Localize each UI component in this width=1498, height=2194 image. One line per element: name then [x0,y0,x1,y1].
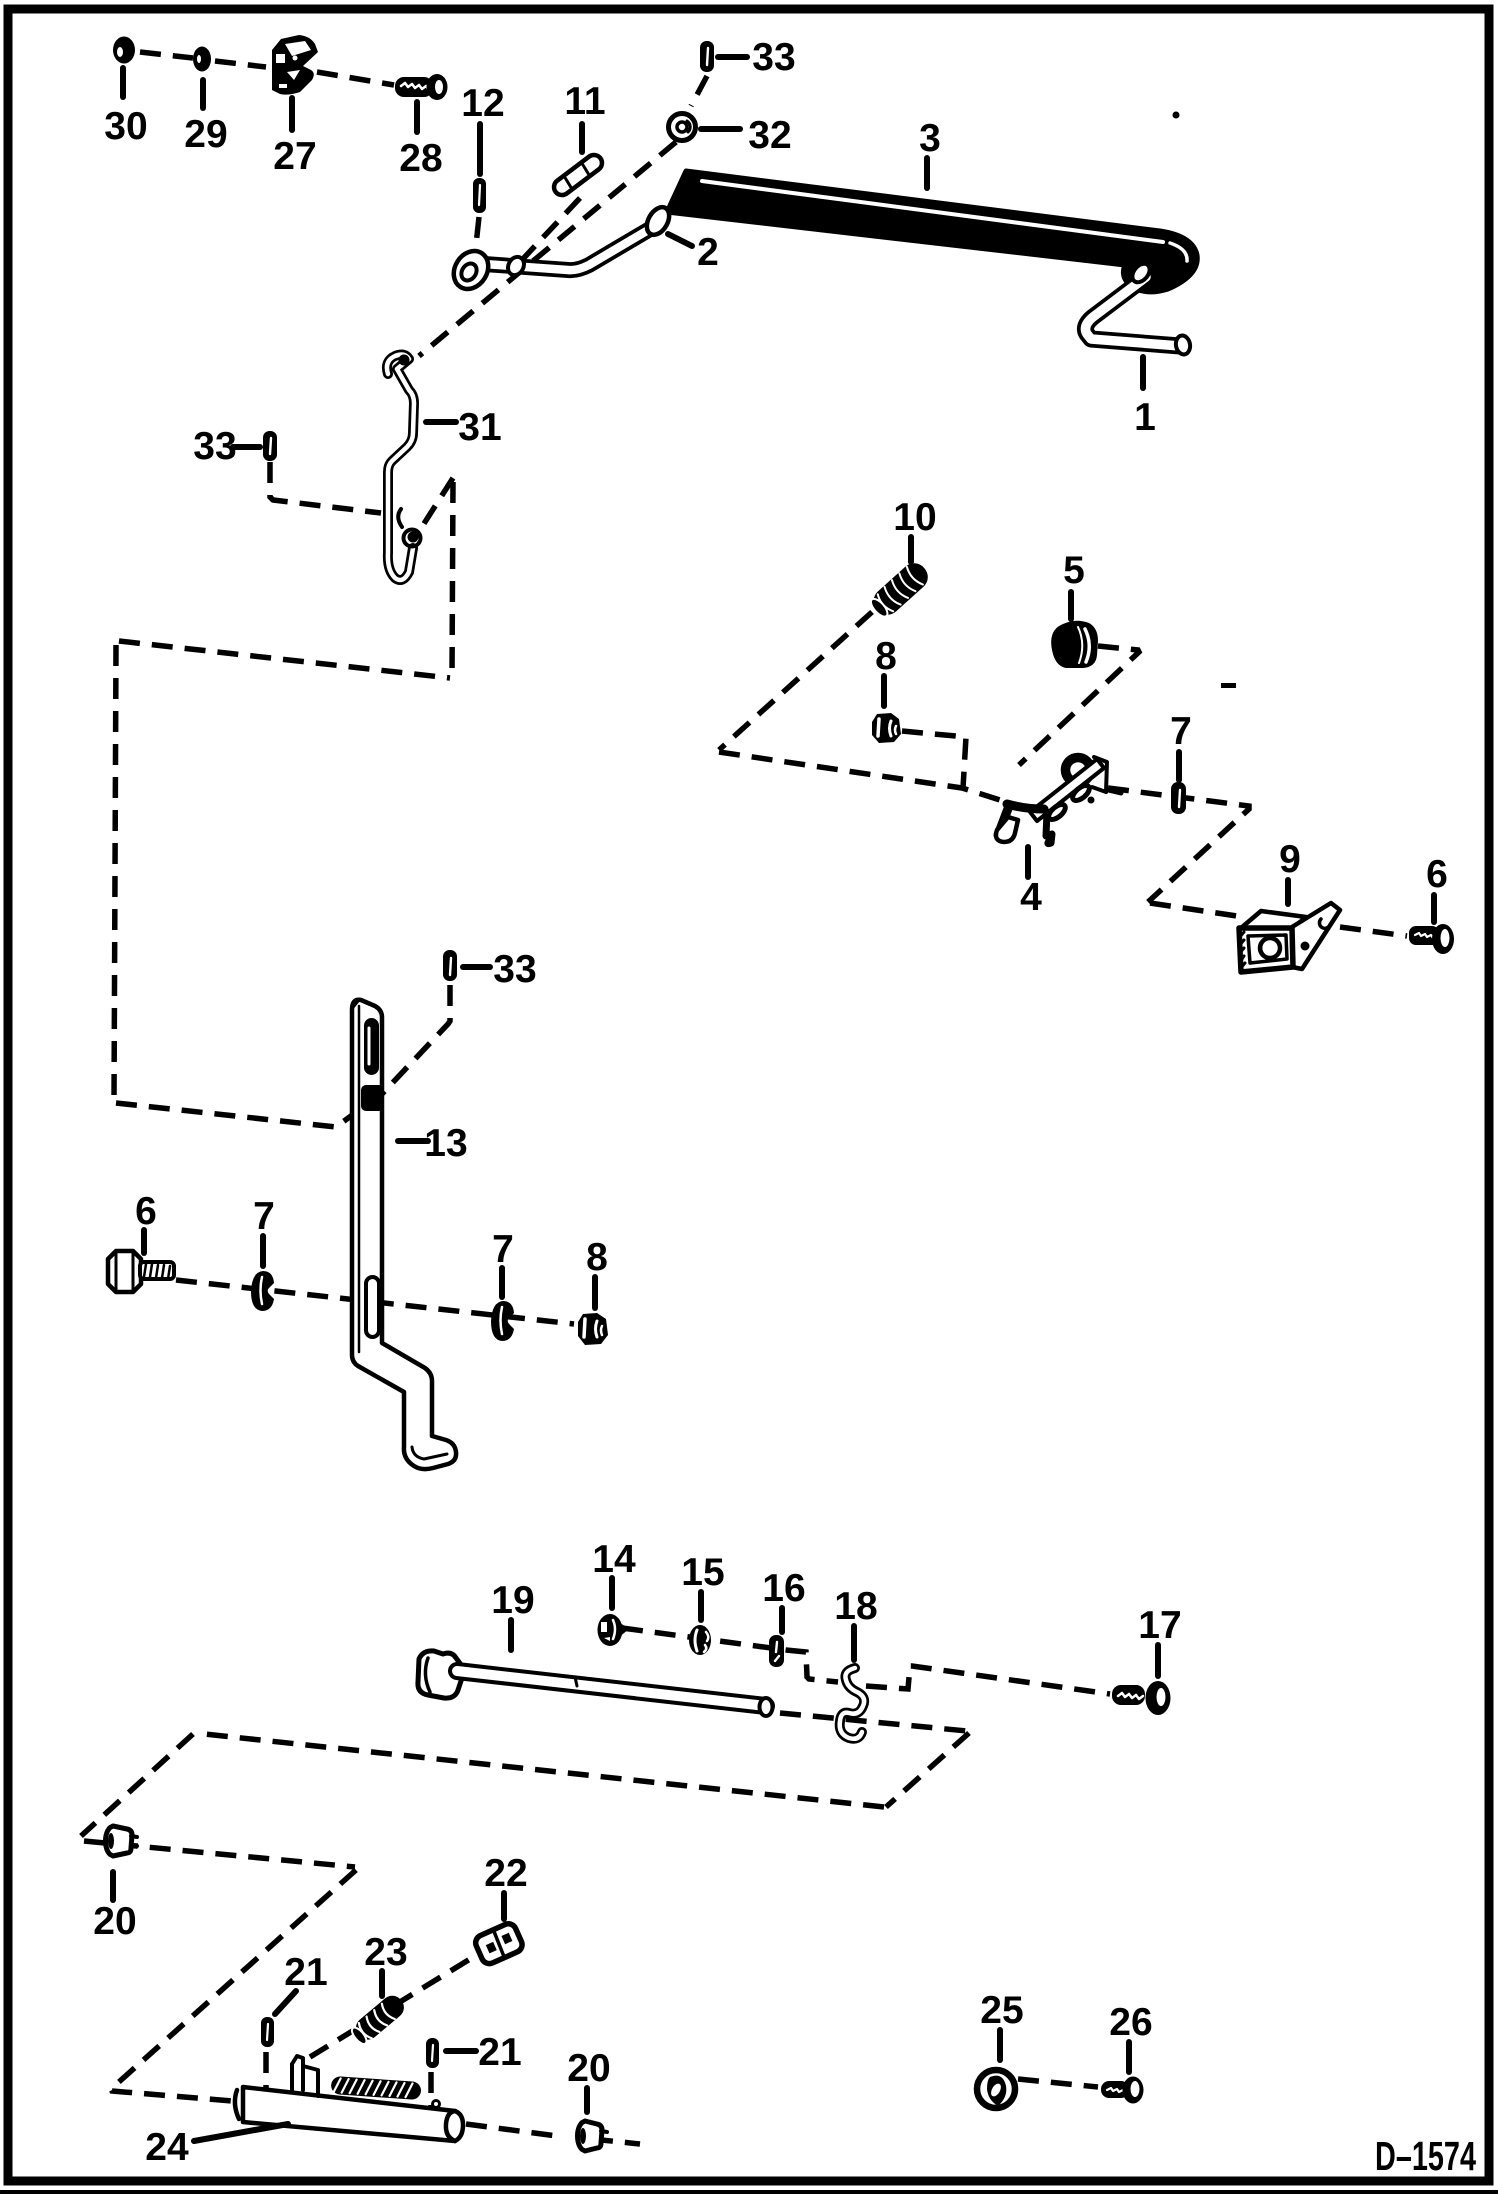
svg-text:15: 15 [681,1551,724,1594]
dashed line corner to bracket 9 [1150,903,1237,916]
part 24 pedal shaft assembly [235,2056,463,2141]
dashed line 18 to 17 step [866,1666,1110,1694]
part 15 clip [689,1625,711,1655]
leader 9 [1285,880,1291,904]
svg-text:33: 33 [493,948,536,991]
svg-text:14: 14 [592,1538,636,1581]
leader 31 [426,419,456,425]
leader 33 top right [718,54,747,60]
part 28 bolt [395,74,448,100]
part 3 handlebar grip [667,171,1197,292]
svg-text:24: 24 [145,2126,189,2169]
svg-text:5: 5 [1063,549,1085,592]
dashed line 25 to 26 [1018,2079,1098,2087]
dashed line knob 5 [1019,646,1139,765]
leader 25 [997,2030,1003,2060]
part 22 clip plate [473,1921,524,1966]
dashed line 33 to 32 [691,76,707,106]
svg-text:4: 4 [1020,876,1042,919]
leader 6 right [1431,895,1437,922]
svg-text:33: 33 [193,425,236,468]
leader 33 middle [463,964,490,970]
leader 7 upper [1176,752,1182,780]
leader 17 [1155,1645,1161,1676]
svg-text:D–1574: D–1574 [1375,2133,1476,2179]
svg-text:20: 20 [567,2047,610,2090]
leader 5 [1068,592,1074,619]
leader 29 [200,80,206,108]
dashed line left vertical panel [114,645,116,1101]
dashed line diagonal to 31 eye [418,478,453,533]
svg-text:2: 2 [697,231,719,274]
part 18 spring clip [840,1668,864,1739]
svg-text:30: 30 [104,105,147,148]
dashed line flange 9 to bolt 6 [1340,927,1407,936]
svg-text:25: 25 [980,1989,1023,2032]
dashed line after 20 mid [592,2139,640,2144]
dashed line panel right edge [886,1733,969,1807]
leader 8 right [592,1277,598,1308]
part 7 roll pin upper [1171,782,1186,814]
svg-text:33: 33 [752,36,795,79]
part 33 roll pin left [263,431,277,461]
dashed line 33 left to rod 31 [270,462,381,513]
part 1 crank handle [1085,260,1191,355]
dashed line through 20 left [84,1841,355,1867]
svg-text:27: 27 [273,135,316,178]
leader 14 [609,1578,615,1608]
dashed line 30 to 29 [140,52,193,58]
part 6 bolt right [1409,924,1454,954]
dashed line bolt 6 left through 7 7 8 [176,1280,574,1324]
part 16 roll pin [769,1635,784,1667]
svg-text:17: 17 [1138,1604,1181,1647]
leader 16 [779,1608,785,1632]
part 32 washer [669,114,696,141]
leader 21 left [275,1991,296,2014]
leader 33 left [233,444,260,450]
leader 18 [851,1626,857,1660]
part 7 lock washer left [251,1271,274,1311]
svg-text:13: 13 [424,1122,467,1165]
dashed line panel top edge [195,1733,884,1807]
leader 13 [398,1138,428,1144]
part 26 bolt [1101,2077,1144,2104]
dashed line 33 middle to 13 [381,985,450,1095]
leader 28 [414,102,420,132]
leader 3 [924,158,930,188]
svg-text:6: 6 [1426,853,1448,896]
leader 24 [194,2124,288,2141]
svg-text:12: 12 [461,82,504,125]
svg-text:7: 7 [253,1195,275,1238]
stray dot [1173,112,1180,119]
leader 7 left [260,1236,266,1266]
part 2 crank arm upper [447,203,674,295]
svg-text:8: 8 [586,1236,608,1279]
svg-text:28: 28 [399,137,442,180]
leader 7 mid [499,1268,505,1297]
part 6 bolt left [108,1251,174,1292]
leader 20 mid [584,2088,590,2112]
dashed line bracket 4 to 7 to corner [1108,788,1249,902]
part 10 spring [867,558,933,622]
leader 11 [579,124,585,152]
part 21 roll pin left [261,2017,274,2047]
part 27 clamp [272,35,318,95]
svg-text:11: 11 [564,80,605,123]
part 21 roll pin right [426,2038,439,2068]
dashed line 29 to 27 [215,61,266,67]
dashed line vertical from 31 eye [452,482,453,676]
leader 32 [701,126,740,132]
leader 15 [698,1592,704,1620]
leader 21 right [446,2048,476,2054]
dashed line spring 10 diagonal [719,612,872,750]
part 7 lock washer mid [491,1301,514,1341]
svg-text:7: 7 [492,1228,514,1271]
part 17 bolt [1112,1681,1171,1715]
part 20 cap left [106,1826,138,1856]
part 8 flange nut right [578,1313,608,1345]
leader 23 [379,1971,385,1996]
dashed line rod 19 end to corner [780,1713,967,1731]
svg-text:1: 1 [1134,396,1156,439]
leader 22 [501,1893,507,1919]
svg-text:19: 19 [491,1579,534,1622]
dashed line panel to 13 [116,1099,374,1127]
leader 6 left [141,1230,147,1253]
part 14 push nut [598,1614,627,1646]
leader 27 [289,98,295,130]
leader 20 left [110,1872,116,1900]
leader 12 [477,124,483,174]
svg-text:26: 26 [1109,2001,1152,2044]
leader 26 [1126,2042,1132,2072]
dashed line 24 to 20 mid [466,2124,557,2136]
svg-text:7: 7 [1170,710,1192,753]
dashed line 27 to 28 [317,72,394,85]
svg-text:6: 6 [135,1190,157,1233]
part 8 flange nut upper [872,713,901,743]
dashed line 11 to shaft hole [521,198,580,261]
leader 10 [908,537,914,562]
part 4 latch bracket [996,757,1121,844]
svg-text:32: 32 [748,114,791,157]
dashed line nut 8 to step [902,731,966,788]
part 33 roll pin top right [700,41,714,72]
dashed line 14 15 16 row [622,1628,838,1682]
svg-text:29: 29 [184,113,227,156]
leader 1 [1140,357,1146,388]
svg-text:21: 21 [478,2031,521,2074]
part 23 spring [348,1991,408,2047]
svg-text:9: 9 [1279,838,1301,881]
svg-text:20: 20 [93,1900,136,1943]
dashed line 12 to clevis [475,217,479,254]
part 9 channel bracket [1239,903,1340,972]
dashed line bottom of panel 31 [119,641,450,678]
svg-text:21: 21 [284,1951,327,1994]
dashed line 32 to clevis to 31 hook [419,142,676,356]
part 13 shift lever plate [352,999,456,1469]
dashed line panel left edge [81,1734,193,1836]
dashed line pin 21 right down [428,2072,434,2110]
dashed line corner to bracket 4 [719,752,1000,800]
part 31 bent rod [387,355,421,581]
svg-text:22: 22 [484,1852,527,1895]
svg-text:31: 31 [458,406,501,449]
svg-text:3: 3 [919,117,941,160]
part 11 spacer tube [551,152,605,198]
leader 8 upper [881,676,887,706]
stray dash [1221,683,1236,688]
leader 2 [668,234,692,246]
part 30 push nut [113,37,135,64]
part 25 lock washer [977,2070,1015,2108]
svg-text:18: 18 [834,1585,877,1628]
svg-text:23: 23 [364,1931,407,1974]
part 19 shift rod [418,1651,773,1716]
part 29 grommet [193,47,211,72]
leader 19 [508,1620,514,1650]
dashed line pin 21 left down [263,2052,269,2094]
svg-text:16: 16 [762,1567,805,1610]
part 12 roll pin [473,178,486,213]
part 20 cap mid [578,2121,608,2151]
dashed line spring 23 diagonal [310,1956,475,2057]
bottom scan strip [0,2190,1498,2194]
leader 30 [120,68,126,97]
part 5 knob [1051,621,1098,668]
part 33 roll pin middle [443,950,457,981]
svg-text:8: 8 [875,635,897,678]
svg-text:10: 10 [893,496,936,539]
leader 4 [1025,847,1031,877]
dashed line diagonal to 24 [111,1870,356,2101]
